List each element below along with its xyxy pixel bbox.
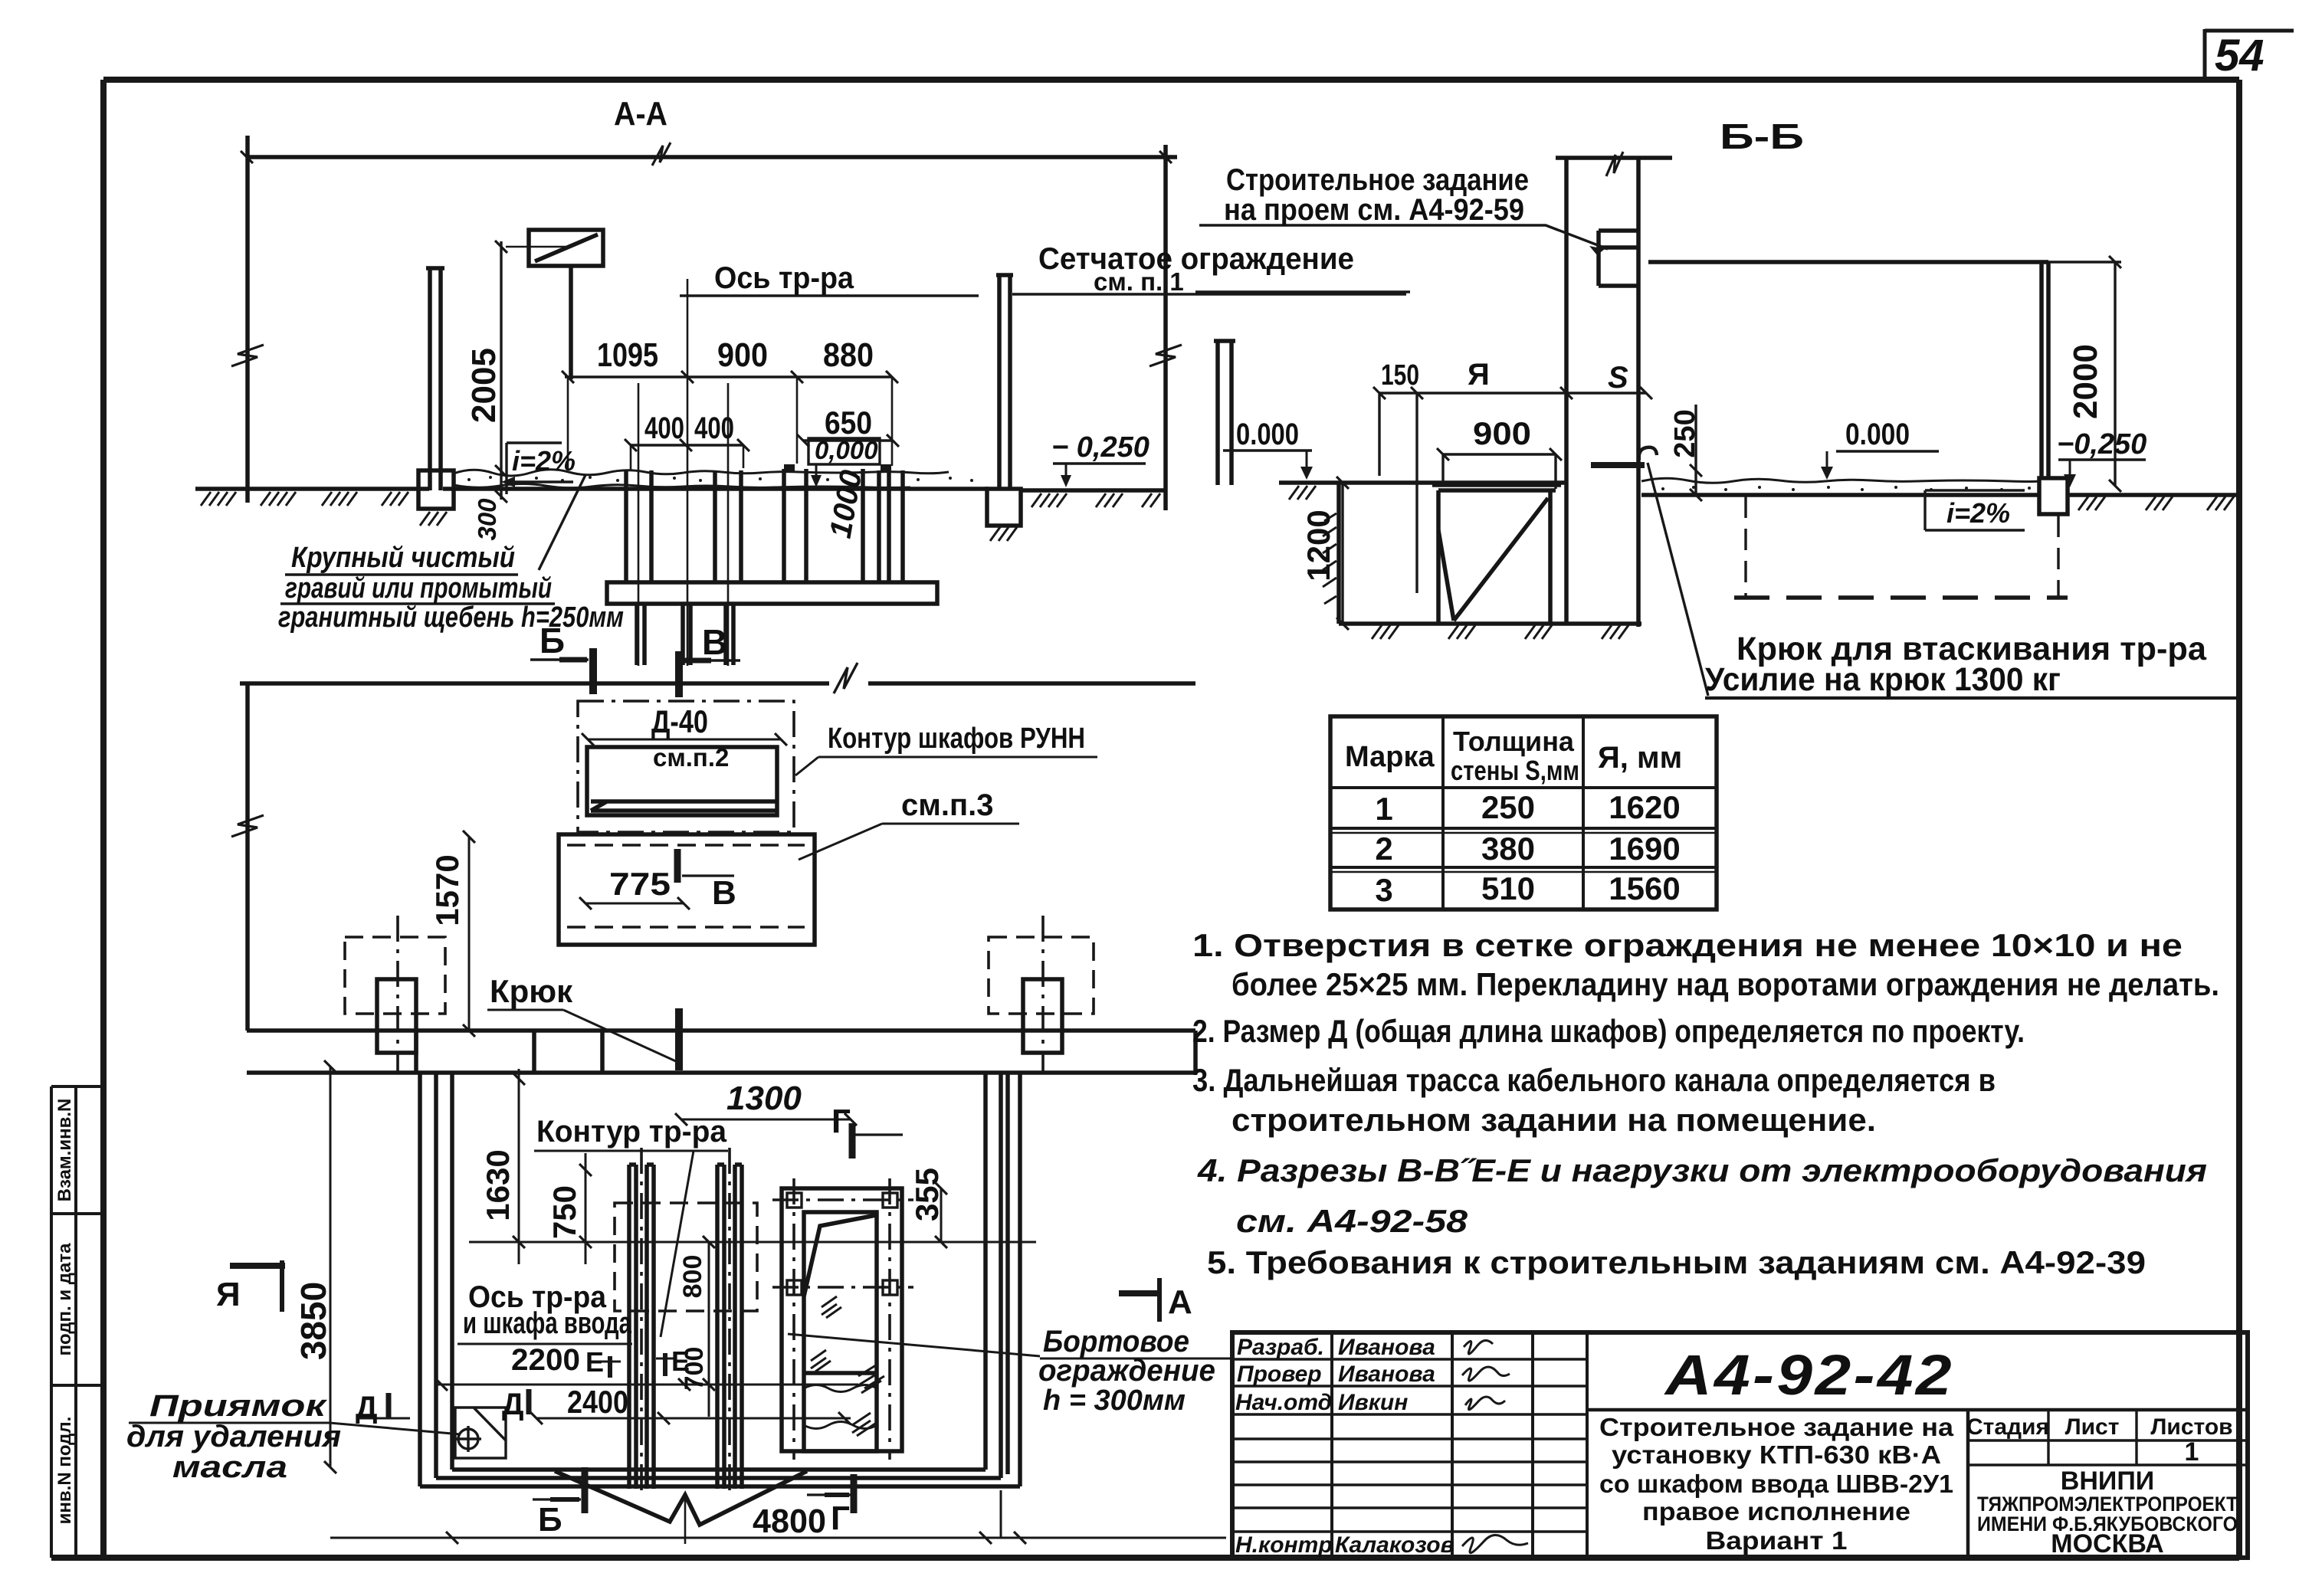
svg-text:1095: 1095	[597, 336, 658, 374]
svg-text:5. Требования к строительным: 5. Требования к строительным заданиям см…	[1207, 1244, 2146, 1280]
svg-text:400: 400	[694, 411, 734, 445]
svg-text:3: 3	[1375, 872, 1392, 908]
svg-text:3850: 3850	[294, 1282, 333, 1360]
svg-text:4. Разрезы В-В˝Е-Е и нагрузки: 4. Разрезы В-В˝Е-Е и нагрузки от электро…	[1197, 1152, 2207, 1188]
svg-text:Я: Я	[216, 1276, 241, 1313]
svg-text:1690: 1690	[1609, 831, 1680, 867]
svg-text:В: В	[702, 622, 727, 662]
svg-text:Я, мм: Я, мм	[1598, 741, 1682, 775]
svg-text:Е: Е	[585, 1346, 604, 1378]
svg-text:А4-92-42: А4-92-42	[1664, 1343, 1954, 1407]
svg-text:В: В	[712, 874, 736, 912]
svg-text:250: 250	[1481, 789, 1535, 825]
svg-text:гранитный щебень h=250мм: гранитный щебень h=250мм	[278, 601, 624, 634]
svg-text:0.000: 0.000	[1236, 418, 1299, 451]
svg-text:Лист: Лист	[2065, 1414, 2120, 1440]
svg-text:подп. и дата: подп. и дата	[54, 1243, 75, 1356]
svg-text:1560: 1560	[1609, 870, 1680, 906]
svg-text:Контур шкафов РУНН: Контур шкафов РУНН	[828, 723, 1085, 755]
svg-text:Н.контр: Н.контр	[1235, 1532, 1333, 1558]
svg-text:900: 900	[717, 336, 768, 374]
svg-text:и шкафа ввода: и шкафа ввода	[463, 1306, 632, 1340]
svg-text:Крюк: Крюк	[490, 973, 573, 1009]
svg-text:h = 300мм: h = 300мм	[1043, 1385, 1186, 1417]
svg-text:150: 150	[1381, 359, 1419, 392]
svg-text:стены S,мм: стены S,мм	[1451, 755, 1579, 786]
svg-text:Я: Я	[1468, 358, 1490, 392]
svg-text:750: 750	[546, 1185, 582, 1239]
svg-text:масла: масла	[172, 1450, 287, 1484]
svg-text:3. Дальнейшая трасса кабельн: 3. Дальнейшая трасса кабельного канала о…	[1192, 1062, 1996, 1098]
svg-text:ограждение: ограждение	[1038, 1354, 1215, 1388]
svg-text:775: 775	[609, 866, 671, 902]
svg-text:2400: 2400	[567, 1384, 628, 1420]
svg-text:см. п. 1: см. п. 1	[1094, 267, 1184, 296]
svg-text:более 25×25 мм. Перекладину: более 25×25 мм. Перекладину над воротами…	[1231, 966, 2219, 1002]
svg-text:МОСКВА: МОСКВА	[2051, 1529, 2164, 1558]
svg-text:880: 880	[823, 336, 874, 374]
svg-text:1630: 1630	[480, 1149, 516, 1221]
svg-text:i=2%: i=2%	[1946, 497, 2010, 529]
svg-text:S: S	[1608, 361, 1628, 395]
svg-text:Ивкин: Ивкин	[1338, 1390, 1408, 1415]
svg-text:Калакозов: Калакозов	[1335, 1532, 1455, 1558]
svg-text:0.000: 0.000	[1845, 418, 1910, 451]
svg-text:2000: 2000	[2067, 344, 2104, 419]
svg-text:см.п.2: см.п.2	[653, 743, 729, 772]
svg-text:1570: 1570	[429, 854, 465, 926]
svg-text:510: 510	[1481, 870, 1535, 906]
svg-text:строительном задании на пом: строительном задании на помещение.	[1231, 1102, 1876, 1138]
svg-text:2. Размер Д (общая длина шка: 2. Размер Д (общая длина шкафов) определ…	[1192, 1013, 2025, 1049]
svg-text:ВНИПИ: ВНИПИ	[2061, 1467, 2154, 1496]
svg-text:Вариант 1: Вариант 1	[1706, 1526, 1848, 1555]
svg-text:250: 250	[1669, 409, 1701, 457]
svg-text:Крупный чистый: Крупный чистый	[291, 542, 515, 574]
svg-text:Б-Б: Б-Б	[1720, 116, 1804, 156]
svg-text:Разраб.: Разраб.	[1237, 1335, 1324, 1360]
svg-text:на проем см. А4-92-59: на проем см. А4-92-59	[1224, 193, 1524, 227]
svg-text:1620: 1620	[1609, 789, 1680, 825]
svg-text:Б: Б	[539, 621, 565, 660]
svg-text:Иванова: Иванова	[1338, 1362, 1435, 1387]
svg-text:1. Отверстия в сетке огражде: 1. Отверстия в сетке ограждения не менее…	[1192, 927, 2183, 963]
svg-text:для удаления: для удаления	[126, 1420, 341, 1453]
svg-text:Марка: Марка	[1345, 741, 1435, 773]
svg-text:1: 1	[1375, 791, 1392, 827]
svg-text:Взам.инв.N: Взам.инв.N	[54, 1099, 75, 1202]
svg-text:Стадия: Стадия	[1966, 1414, 2049, 1440]
svg-text:А: А	[1168, 1283, 1192, 1321]
svg-text:со шкафом ввода ШВВ-2У1: со шкафом ввода ШВВ-2У1	[1599, 1470, 1953, 1498]
svg-text:см.п.3: см.п.3	[901, 788, 993, 822]
svg-text:Сетчатое ограждение: Сетчатое ограждение	[1038, 242, 1354, 276]
svg-text:Б: Б	[538, 1501, 562, 1539]
svg-text:1300: 1300	[726, 1080, 802, 1117]
svg-text:2: 2	[1375, 831, 1392, 867]
svg-text:900: 900	[1473, 415, 1531, 451]
svg-text:650: 650	[825, 405, 872, 441]
svg-text:800: 800	[678, 1255, 707, 1299]
svg-text:300: 300	[473, 498, 501, 541]
svg-text:i=2%: i=2%	[512, 445, 576, 477]
svg-text:установку КТП-630 кВ·А: установку КТП-630 кВ·А	[1612, 1440, 1941, 1469]
svg-text:Нач.отд: Нач.отд	[1235, 1390, 1332, 1415]
svg-text:Д: Д	[502, 1388, 524, 1421]
svg-text:Д: Д	[356, 1391, 378, 1424]
svg-text:А-А: А-А	[614, 95, 667, 133]
svg-text:54: 54	[2215, 31, 2265, 80]
svg-text:700: 700	[680, 1347, 709, 1391]
svg-text:Толщина: Толщина	[1453, 726, 1575, 757]
svg-text:Усилие на крюк 1300 кг: Усилие на крюк 1300 кг	[1705, 661, 2061, 698]
svg-text:1200: 1200	[1300, 510, 1336, 581]
svg-text:Строительное задание на: Строительное задание на	[1599, 1413, 1954, 1441]
svg-text:Провер: Провер	[1237, 1362, 1322, 1387]
svg-text:Иванова: Иванова	[1338, 1335, 1435, 1360]
svg-text:инв.N подл.: инв.N подл.	[54, 1417, 75, 1525]
svg-text:400: 400	[644, 411, 684, 445]
svg-text:Д-40: Д-40	[651, 703, 708, 739]
svg-text:Листов: Листов	[2150, 1414, 2232, 1440]
svg-text:− 0,250: − 0,250	[1051, 431, 1149, 464]
svg-text:2200: 2200	[511, 1343, 580, 1377]
svg-text:355: 355	[909, 1168, 945, 1221]
svg-text:Контур тр-ра: Контур тр-ра	[536, 1115, 727, 1149]
svg-text:−0,250: −0,250	[2057, 428, 2146, 460]
svg-text:см. А4-92-58: см. А4-92-58	[1236, 1203, 1468, 1239]
svg-text:0,000: 0,000	[815, 436, 878, 464]
svg-text:гравий или промытый: гравий или промытый	[285, 572, 552, 605]
svg-text:4800: 4800	[753, 1503, 826, 1540]
svg-text:1: 1	[2185, 1437, 2199, 1467]
svg-text:Г: Г	[831, 1499, 850, 1537]
svg-text:Строительное задание: Строительное задание	[1226, 163, 1529, 197]
svg-text:380: 380	[1481, 831, 1535, 867]
svg-text:Г: Г	[831, 1103, 851, 1140]
svg-text:2005: 2005	[465, 348, 503, 423]
svg-text:Ось тр-ра: Ось тр-ра	[714, 261, 854, 295]
svg-text:правое исполнение: правое исполнение	[1642, 1497, 1910, 1526]
svg-text:Приямок: Приямок	[149, 1389, 327, 1423]
